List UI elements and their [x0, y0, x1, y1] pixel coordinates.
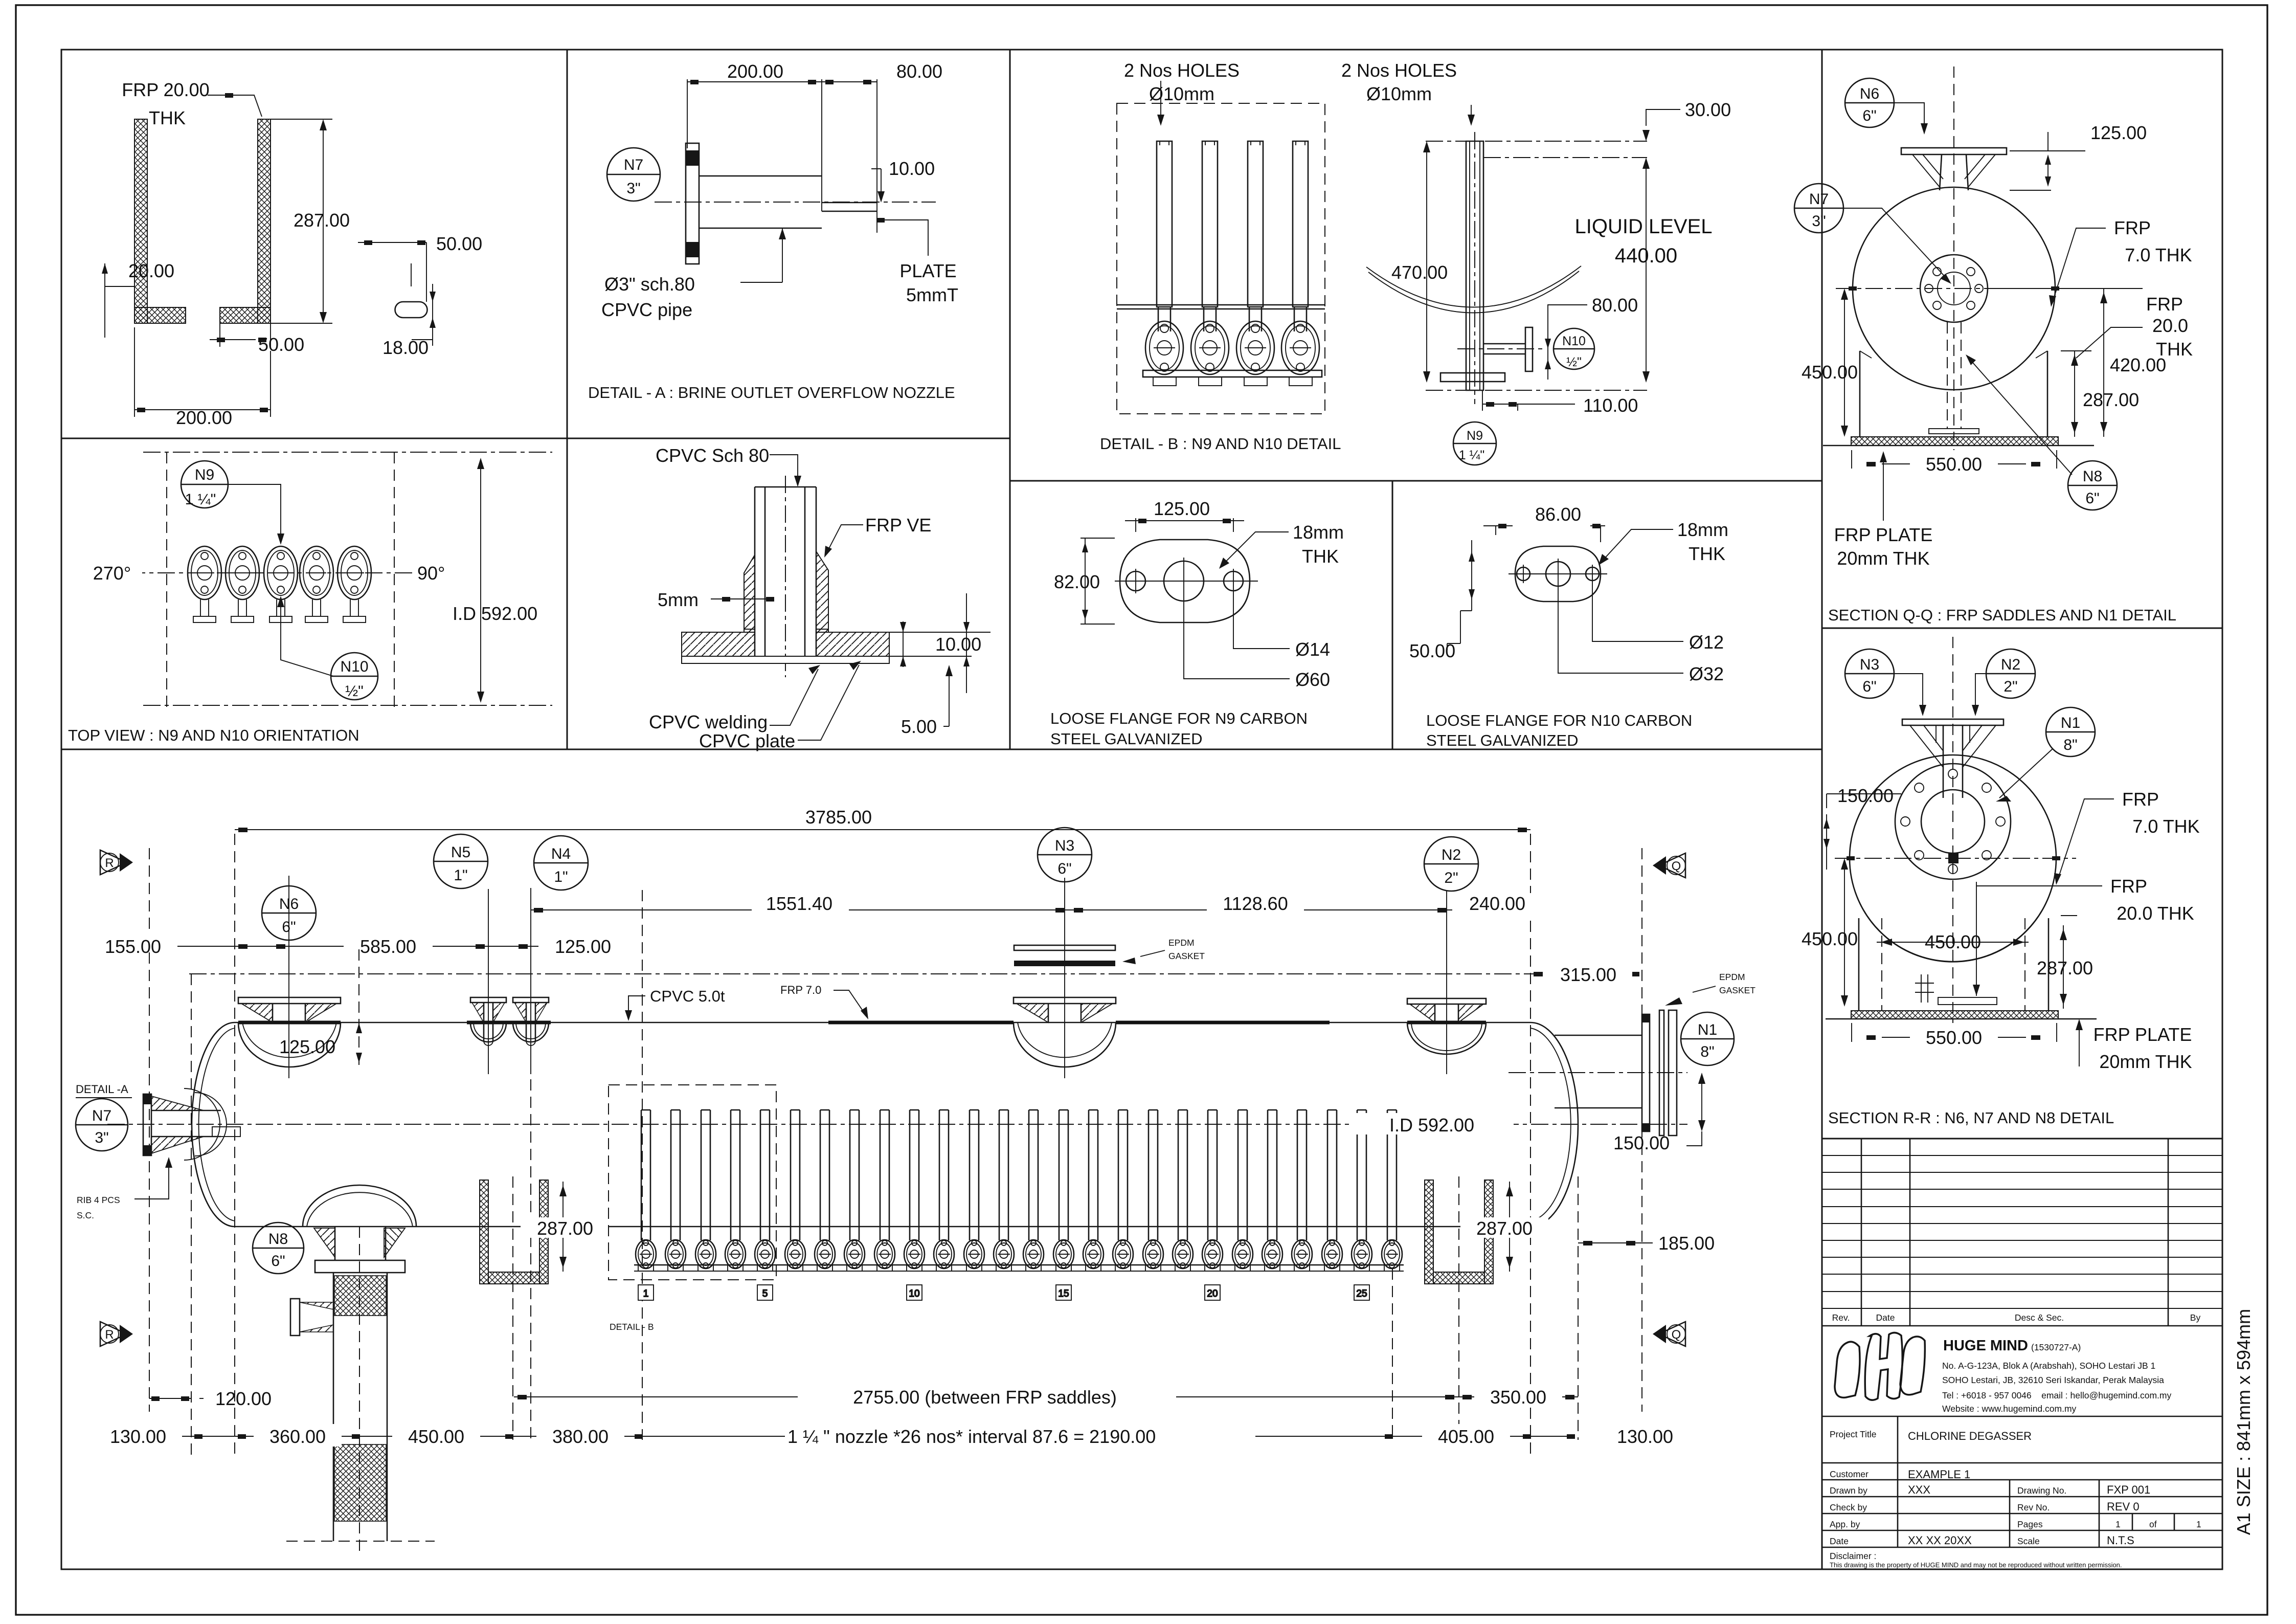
svg-text:Q: Q	[1672, 859, 1681, 873]
svg-text:80.00: 80.00	[896, 61, 942, 82]
balloon N2	[1424, 837, 1478, 891]
crosshairs	[1115, 581, 1258, 582]
revision table rows	[1822, 1155, 2222, 1308]
svg-text:287.00: 287.00	[2083, 389, 2139, 410]
nozzle N8 bottom	[286, 1185, 435, 1541]
svg-text:N5: N5	[451, 844, 470, 861]
svg-text:STEEL GALVANIZED: STEEL GALVANIZED	[1426, 731, 1578, 749]
dim 470.00	[1426, 144, 1427, 380]
svg-text:125.00: 125.00	[279, 1036, 335, 1057]
customer row	[1822, 1462, 2222, 1464]
svg-text:RIB 4 PCS: RIB 4 PCS	[77, 1195, 120, 1205]
svg-text:6": 6"	[271, 1253, 285, 1270]
N9 leader	[228, 484, 281, 541]
svg-text:10: 10	[909, 1288, 919, 1299]
svg-text:3": 3"	[626, 180, 640, 197]
svg-text:18mm: 18mm	[1677, 519, 1728, 540]
svg-text:125.00: 125.00	[555, 936, 611, 957]
loose flange N7 bar	[686, 143, 699, 264]
balloon N2	[1986, 649, 2035, 698]
Q marker top	[1653, 853, 1685, 878]
gussets	[1910, 725, 1996, 767]
R marker top	[100, 850, 133, 875]
FRP VE right collar	[816, 551, 828, 632]
svg-text:LIQUID LEVEL: LIQUID LEVEL	[1574, 215, 1712, 238]
svg-text:18.00: 18.00	[382, 337, 429, 358]
svg-text:350.00: 350.00	[1490, 1387, 1546, 1408]
svg-text:CPVC Sch 80: CPVC Sch 80	[656, 445, 769, 466]
vessel wall double line	[1117, 304, 1325, 306]
base centre pad	[1929, 429, 1979, 434]
panel divider vertical left/detailA	[567, 50, 568, 749]
svg-text:185.00: 185.00	[1658, 1233, 1715, 1254]
pipe centerline	[785, 476, 786, 677]
FRP VE left collar	[744, 555, 755, 632]
right FRP saddle section	[1425, 1180, 1493, 1284]
dim 287.00 rr	[2063, 925, 2064, 1009]
svg-text:Project Title: Project Title	[1830, 1429, 1876, 1439]
svg-text:FRP PLATE: FRP PLATE	[2094, 1024, 2192, 1045]
svg-text:DETAIL - B : N9 AND N10 DETAIL: DETAIL - B : N9 AND N10 DETAIL	[1100, 435, 1341, 453]
svg-text:80.00: 80.00	[1592, 295, 1638, 316]
center crosshair	[1836, 288, 2072, 289]
saddle walls rr	[1858, 918, 1860, 1011]
svg-text:450.00: 450.00	[1802, 928, 1858, 949]
svg-text:of: of	[2149, 1519, 2157, 1529]
svg-text:N3: N3	[1860, 656, 1879, 673]
bottom CL	[1426, 390, 1647, 391]
svg-text:HUGE MIND: HUGE MIND	[1943, 1338, 2028, 1354]
svg-text:5: 5	[762, 1288, 768, 1299]
svg-text:CHLORINE DEGASSER: CHLORINE DEGASSER	[1908, 1430, 2032, 1442]
svg-text:CPVC plate: CPVC plate	[699, 730, 795, 751]
balloon N3	[1845, 649, 1894, 698]
pipe inner walls	[764, 487, 766, 663]
svg-text:10.00: 10.00	[889, 158, 935, 179]
svg-text:FRP 20.00: FRP 20.00	[122, 79, 209, 100]
labels dia	[1233, 593, 1290, 649]
svg-text:2 Nos HOLES: 2 Nos HOLES	[1341, 60, 1457, 81]
N6 neck	[1940, 154, 1942, 190]
svg-text:Ø10mm: Ø10mm	[1366, 83, 1432, 104]
vessel shell circle	[1853, 187, 2055, 390]
vessel shell top	[235, 1022, 1530, 1024]
R marker bottom	[100, 1322, 133, 1346]
svg-text:270°: 270°	[93, 563, 131, 584]
svg-text:N2: N2	[1442, 847, 1461, 863]
dim 550.00	[1882, 463, 2026, 464]
section line Q	[1641, 848, 1642, 1412]
svg-text:N4: N4	[551, 846, 571, 862]
N6 leader	[1894, 103, 1924, 130]
svg-text:N.T.S: N.T.S	[2107, 1534, 2134, 1547]
svg-text:TOP VIEW : N9 AND N10 ORIENTAT: TOP VIEW : N9 AND N10 ORIENTATION	[68, 726, 359, 744]
nozzle N4	[513, 997, 549, 1045]
svg-text:1": 1"	[454, 867, 467, 884]
nozzle N2	[1407, 998, 1486, 1054]
dim row 155 / 585 / 125	[123, 946, 578, 947]
balloon N6	[1845, 78, 1894, 127]
bottom dimension row	[149, 1436, 1575, 1437]
svg-text:1 ¼": 1 ¼"	[185, 491, 216, 508]
dim row 1551.40 / 1128.60 / 240.00	[531, 909, 1530, 910]
svg-text:Desc & Sec.: Desc & Sec.	[2015, 1312, 2064, 1323]
svg-text:50.00: 50.00	[1409, 640, 1455, 661]
dim 315.00	[1534, 972, 1543, 976]
vessel shell bottom	[235, 1226, 1530, 1228]
svg-text:585.00: 585.00	[360, 936, 416, 957]
svg-text:5mmT: 5mmT	[906, 284, 958, 305]
panel divider horizontal top row / main panel	[61, 749, 1822, 750]
revision table columns	[1861, 1139, 1862, 1326]
svg-text:Date: Date	[1876, 1312, 1895, 1323]
svg-text:405.00: 405.00	[1438, 1426, 1494, 1447]
svg-text:130.00: 130.00	[110, 1426, 166, 1447]
svg-text:2755.00 (between FRP saddles): 2755.00 (between FRP saddles)	[853, 1387, 1117, 1408]
svg-text:LOOSE FLANGE FOR N10 CARBON: LOOSE FLANGE FOR N10 CARBON	[1426, 711, 1692, 729]
svg-text:EPDM: EPDM	[1719, 972, 1745, 982]
dim 120.00	[149, 1398, 191, 1399]
svg-text:THK: THK	[1689, 543, 1725, 564]
dim 450.00 inner	[1877, 942, 2029, 943]
svg-text:FRP PLATE: FRP PLATE	[1834, 524, 1933, 545]
project title row	[1822, 1416, 2222, 1417]
svg-text:Drawing No.: Drawing No.	[2017, 1485, 2066, 1496]
top plate	[1902, 719, 2004, 725]
channel right wall (hatched)	[258, 119, 271, 323]
svg-text:7.0 THK: 7.0 THK	[2125, 244, 2192, 265]
rib pad sub-detail (pill)	[395, 302, 427, 318]
FRP 7.0 thick liner top	[828, 1021, 1330, 1025]
pill dim 18.00	[412, 284, 433, 346]
svg-text:This drawing is the property o: This drawing is the property of HUGE MIN…	[1830, 1561, 2122, 1569]
I.D 592.00 label	[1350, 1113, 1514, 1134]
svg-text:GASKET: GASKET	[1719, 985, 1755, 995]
dim 2755.00 row	[514, 1396, 1459, 1397]
svg-text:GASKET: GASKET	[1168, 951, 1205, 961]
balloon N8	[253, 1222, 304, 1274]
svg-text:82.00: 82.00	[1054, 571, 1100, 592]
nozzle N5	[470, 997, 506, 1045]
svg-text:N6: N6	[1860, 85, 1879, 102]
svg-text:6": 6"	[1862, 107, 1876, 124]
svg-text:20mm THK: 20mm THK	[2099, 1051, 2192, 1072]
nozzle N3	[1014, 997, 1116, 1067]
dim 125.00 qq	[2010, 132, 2085, 190]
svg-text:R: R	[105, 1328, 114, 1342]
svg-text:REV 0: REV 0	[2107, 1500, 2140, 1513]
svg-text:Ø3" sch.80: Ø3" sch.80	[604, 274, 695, 295]
dim 185.00	[1578, 1242, 1653, 1243]
svg-text:450.00: 450.00	[1802, 362, 1858, 383]
vessel shell circle	[1850, 755, 2056, 962]
svg-text:STEEL GALVANIZED: STEEL GALVANIZED	[1050, 730, 1202, 748]
svg-text:N2: N2	[2001, 656, 2020, 673]
numbered tags	[638, 1285, 1369, 1300]
svg-text:3": 3"	[95, 1129, 108, 1146]
bolt hole left	[1126, 571, 1145, 591]
vessel axis CL	[107, 1124, 1687, 1125]
svg-text:FRP VE: FRP VE	[865, 515, 931, 536]
panel divider horizontal sectionQQ/RR	[1822, 628, 2222, 629]
N1 flange circle	[1895, 764, 2011, 879]
center bore	[1164, 561, 1204, 601]
centerline verticals	[191, 834, 1578, 1555]
bolt hole right	[1224, 571, 1243, 591]
svg-text:287.00: 287.00	[2037, 958, 2093, 978]
N6 nozzle top plate	[1901, 148, 2007, 154]
detail B box dashed	[609, 1085, 776, 1280]
svg-text:N7: N7	[1809, 191, 1829, 208]
svg-text:6": 6"	[1862, 678, 1876, 695]
svg-text:Date: Date	[1830, 1536, 1849, 1546]
svg-text:N10: N10	[340, 658, 368, 675]
svg-text:FRP: FRP	[2114, 217, 2151, 238]
svg-text:450.00: 450.00	[408, 1426, 464, 1447]
left head	[192, 1022, 235, 1227]
base plate	[1143, 370, 1322, 377]
svg-text:2": 2"	[2004, 678, 2017, 695]
svg-text:1: 1	[2115, 1519, 2121, 1529]
svg-text:86.00: 86.00	[1535, 504, 1581, 525]
balloon N9	[181, 461, 228, 508]
svg-text:LOOSE FLANGE FOR N9 CARBON: LOOSE FLANGE FOR N9 CARBON	[1050, 709, 1308, 727]
svg-text:N9: N9	[1467, 429, 1483, 443]
svg-text:Rev No.: Rev No.	[2017, 1502, 2050, 1512]
panel divider vertical flange N9/N10	[1392, 481, 1393, 749]
svg-text:5.00: 5.00	[901, 716, 937, 737]
balloon N6	[262, 886, 316, 940]
N6 gussets	[1912, 154, 1995, 188]
svg-text:½": ½"	[1566, 355, 1582, 369]
svg-text:Q: Q	[1672, 1328, 1681, 1342]
dim 440 line	[1646, 169, 1647, 380]
pipe body	[699, 175, 822, 177]
svg-text:DETAIL - B: DETAIL - B	[610, 1322, 654, 1332]
wear plate lines	[1976, 882, 1977, 996]
svg-text:Customer: Customer	[1830, 1469, 1869, 1479]
svg-text:XXX: XXX	[1908, 1483, 1930, 1496]
svg-text:Check by: Check by	[1830, 1502, 1867, 1512]
approved row	[1822, 1513, 2222, 1515]
nozzle centerlines solid	[289, 876, 1447, 1078]
svg-text:DETAIL - A : BRINE OUTLET OVER: DETAIL - A : BRINE OUTLET OVERFLOW NOZZL…	[588, 384, 955, 402]
svg-text:FRP: FRP	[2110, 876, 2147, 897]
svg-text:155.00: 155.00	[105, 936, 161, 957]
svg-text:I.D 592.00: I.D 592.00	[1389, 1115, 1474, 1136]
N8 leader	[1969, 358, 2072, 475]
svg-text:7.0 THK: 7.0 THK	[2132, 816, 2199, 837]
dim 420.00	[2103, 288, 2104, 437]
svg-text:550.00: 550.00	[1926, 454, 1982, 475]
date row	[1822, 1530, 2222, 1531]
panel divider vertical detailA/detailB	[1009, 50, 1011, 749]
svg-text:1 ¼ " nozzle *26 nos* interval: 1 ¼ " nozzle *26 nos* interval 87.6 = 21…	[787, 1426, 1156, 1447]
svg-text:150.00: 150.00	[1613, 1132, 1670, 1153]
dim 10.00	[871, 169, 881, 198]
svg-text:N6: N6	[279, 896, 299, 913]
dim 200.00 / 80.00 top	[687, 79, 688, 148]
right head	[1530, 1022, 1578, 1227]
dim 150.00 N1	[1701, 1076, 1702, 1128]
dia labels	[1592, 583, 1683, 641]
svg-text:FRP 7.0: FRP 7.0	[780, 984, 821, 996]
balloon N9	[1453, 422, 1496, 465]
svg-text:6": 6"	[2085, 490, 2099, 507]
center crosshair	[1835, 858, 2076, 859]
liquid level curve	[1366, 266, 1581, 307]
dim 82.00	[1081, 538, 1115, 624]
dim 125.00 under N6	[358, 949, 359, 1069]
svg-text:PLATE: PLATE	[899, 260, 956, 281]
svg-text:450.00: 450.00	[1925, 931, 1981, 952]
svg-text:25: 25	[1356, 1288, 1367, 1299]
dim 287.00 qq	[2074, 351, 2075, 437]
pipe outer walls	[754, 487, 756, 663]
svg-text:3785.00: 3785.00	[805, 807, 872, 828]
saddle walls	[1859, 351, 1861, 437]
dim 86.00	[1483, 525, 1605, 526]
svg-text:THK: THK	[1302, 546, 1339, 567]
svg-text:N1: N1	[2061, 715, 2080, 731]
svg-text:120.00: 120.00	[215, 1388, 272, 1409]
svg-text:1": 1"	[554, 869, 568, 885]
svg-text:8": 8"	[1700, 1043, 1714, 1060]
plate label leader	[883, 220, 928, 256]
svg-text:I.D 592.00: I.D 592.00	[453, 603, 537, 624]
svg-text:Tel : +6018 - 957 0046 emai: Tel : +6018 - 957 0046 email : hello@hug…	[1942, 1390, 2171, 1400]
svg-text:150.00: 150.00	[1837, 785, 1894, 806]
svg-text:20.00: 20.00	[128, 260, 174, 281]
svg-text:6": 6"	[282, 919, 296, 936]
svg-text:Drawn by: Drawn by	[1830, 1485, 1867, 1496]
svg-text:130.00: 130.00	[1617, 1426, 1673, 1447]
svg-text:2 Nos HOLES: 2 Nos HOLES	[1124, 60, 1240, 81]
nozzle N1 right end	[1509, 1010, 1687, 1136]
svg-text:380.00: 380.00	[552, 1426, 609, 1447]
check by row	[1822, 1496, 2222, 1498]
dim 350.00	[1459, 1396, 1578, 1397]
oval flange row	[188, 546, 371, 622]
panel divider horizontal saddle/topview	[61, 438, 1010, 439]
svg-text:10.00: 10.00	[935, 634, 981, 655]
plate wall	[822, 202, 877, 204]
svg-text:20.0: 20.0	[2152, 315, 2188, 336]
balloon N10	[1554, 328, 1594, 369]
nozzle row base plate	[634, 1264, 1404, 1266]
balloon N7	[1794, 184, 1843, 233]
svg-text:20mm THK: 20mm THK	[1837, 548, 1929, 569]
svg-text:360.00: 360.00	[269, 1426, 326, 1447]
N9 loose flange outline	[1120, 540, 1250, 622]
svg-text:Website : www.hugemind.com.my: Website : www.hugemind.com.my	[1942, 1404, 2077, 1414]
internal nozzle row	[636, 1110, 1402, 1271]
svg-text:20: 20	[1207, 1288, 1218, 1299]
small pipe detail bottom center	[1915, 974, 1934, 1003]
svg-text:1128.60: 1128.60	[1223, 893, 1288, 914]
svg-text:200.00: 200.00	[727, 61, 783, 82]
svg-text:No. A-G-123A, Blok A (Arabshah: No. A-G-123A, Blok A (Arabshah), SOHO Le…	[1942, 1361, 2155, 1371]
channel left wall (hatched)	[134, 119, 147, 323]
svg-text:90°: 90°	[417, 563, 445, 584]
EPDM gasket bars above N3	[1014, 945, 1115, 950]
centerline	[655, 202, 936, 203]
dim 287.00 left saddle	[562, 1182, 564, 1272]
balloon N5	[434, 834, 488, 888]
svg-text:N7: N7	[92, 1107, 111, 1124]
svg-text:2": 2"	[1444, 870, 1458, 886]
svg-text:EPDM: EPDM	[1168, 938, 1195, 948]
leader pipe size	[740, 228, 782, 282]
10.00 dim right	[889, 593, 991, 693]
balloon N4	[534, 836, 588, 890]
svg-text:125.00: 125.00	[1154, 498, 1210, 519]
balloon N3	[1038, 828, 1092, 882]
dim 550.00 rr	[1882, 1037, 2026, 1038]
base plate	[1440, 373, 1505, 382]
nozzle pads thick	[238, 1021, 1486, 1025]
balloon N7	[607, 148, 660, 201]
svg-text:110.00: 110.00	[1583, 395, 1638, 416]
Q marker bottom	[1653, 1322, 1685, 1346]
svg-text:1: 1	[2196, 1519, 2201, 1529]
svg-text:550.00: 550.00	[1926, 1027, 1982, 1048]
orientation box dashed	[166, 452, 167, 707]
panel divider horizontal sectionRR/titleblock	[1822, 1138, 2222, 1140]
balloon N1 main	[1681, 1012, 1734, 1065]
N7 leader to flange	[1843, 208, 1948, 280]
svg-text:Pages: Pages	[2017, 1519, 2043, 1529]
svg-text:N8: N8	[2083, 468, 2102, 485]
dim 110.00	[1482, 390, 1518, 411]
channel bottom left foot (hatched)	[134, 307, 186, 323]
svg-text:By: By	[2190, 1312, 2201, 1323]
svg-text:20.0 THK: 20.0 THK	[2117, 903, 2194, 924]
top reference CL	[1426, 141, 1647, 142]
svg-text:287.00: 287.00	[1476, 1218, 1533, 1239]
center flange N1	[1920, 255, 1988, 322]
svg-text:30.00: 30.00	[1685, 99, 1731, 120]
company logo	[1835, 1332, 1925, 1400]
svg-text:EXAMPLE 1: EXAMPLE 1	[1908, 1468, 1970, 1481]
balloon N10	[331, 653, 378, 700]
dim 287.00 right saddle	[1509, 1182, 1510, 1272]
svg-text:A1 SIZE : 841mm x 594mm: A1 SIZE : 841mm x 594mm	[2233, 1309, 2254, 1535]
svg-text:FXP 001: FXP 001	[2107, 1483, 2150, 1496]
oval flanges	[1145, 321, 1183, 374]
pill dim 50.00	[358, 242, 426, 302]
svg-text:N9: N9	[195, 466, 214, 483]
I.D dimension	[480, 461, 481, 699]
svg-text:N1: N1	[1698, 1021, 1717, 1038]
svg-text:Scale: Scale	[2017, 1536, 2040, 1546]
disclaimer row	[1822, 1547, 2222, 1548]
svg-text:DETAIL -A: DETAIL -A	[76, 1083, 128, 1096]
dim 450.00 left	[1844, 861, 1845, 1004]
svg-text:FRP: FRP	[2146, 294, 2183, 315]
svg-text:SECTION R-R : N6, N7 AND N8 DE: SECTION R-R : N6, N7 AND N8 DETAIL	[1828, 1109, 2114, 1127]
balloon N8	[2068, 461, 2117, 510]
svg-text:Ø12: Ø12	[1689, 632, 1724, 653]
svg-text:Ø14: Ø14	[1295, 639, 1330, 660]
svg-text:CPVC welding: CPVC welding	[649, 711, 768, 732]
svg-text:½": ½"	[345, 683, 364, 700]
nozzle N7 left end	[143, 1088, 240, 1160]
panel divider horizontal detailB/flanges	[1010, 480, 1822, 482]
svg-text:Ø32: Ø32	[1689, 663, 1724, 684]
svg-text:1551.40: 1551.40	[766, 893, 832, 914]
svg-text:287.00: 287.00	[294, 210, 350, 231]
